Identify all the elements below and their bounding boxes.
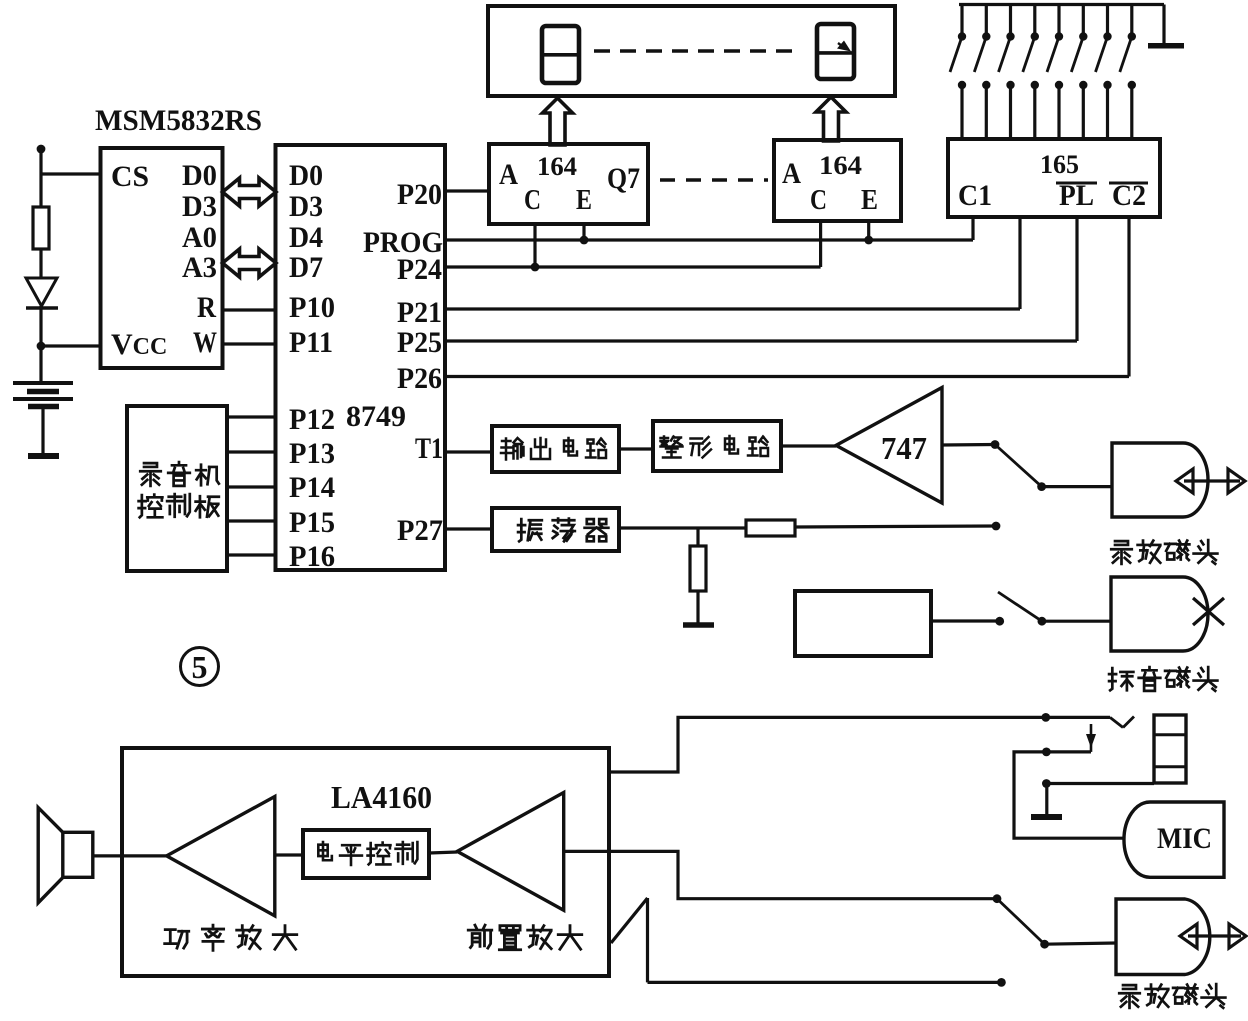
svg-text:P24: P24 [397, 253, 442, 286]
node - play contact [991, 440, 1000, 449]
digit cell left [542, 26, 579, 83]
svg-text:R: R [197, 291, 216, 324]
wire PROG bus [445, 238, 973, 241]
wire [931, 619, 1000, 622]
dashed cascade line [660, 178, 768, 181]
power rail node dot [37, 145, 46, 154]
wire P25 bus [445, 339, 1077, 342]
svg-text:P12: P12 [289, 403, 335, 436]
node C1 junction [531, 263, 540, 272]
node [995, 617, 1004, 626]
svg-text:W: W [193, 326, 217, 359]
ground (jack) [1031, 814, 1062, 820]
switch S1 [960, 5, 963, 35]
wire - switch top rail [959, 3, 1164, 6]
erase head [1111, 577, 1208, 651]
node E2 junction [864, 236, 873, 245]
switch S6 [1082, 5, 1085, 35]
wire - preamp output to record switch [564, 851, 997, 898]
wire P21 bus [445, 307, 1020, 310]
svg-text:C: C [810, 185, 827, 216]
svg-text:D4: D4 [289, 221, 323, 254]
wire [781, 444, 836, 447]
wire - rail to ground [1162, 5, 1165, 44]
switch - record/play head select [995, 445, 1042, 487]
wire P24 bus [445, 265, 821, 268]
wire power amp to level control [275, 853, 303, 856]
svg-text:A: A [499, 158, 518, 191]
block arrow 164#1 to display [543, 98, 573, 145]
block arrow 164#2 to display [816, 97, 846, 141]
diode D1 [26, 278, 57, 306]
switch - bottom head record/play [997, 899, 1045, 945]
IC U4 164 body [774, 140, 901, 221]
wire P26 bus [445, 375, 1129, 378]
head 2 gap arrows [1188, 934, 1241, 937]
jack J1 remote [1154, 715, 1186, 783]
node - record side contact [997, 978, 1006, 987]
svg-text:5: 5 [192, 649, 208, 685]
svg-text:D3: D3 [289, 190, 323, 223]
node Vcc junction [37, 342, 46, 351]
svg-text:D0: D0 [182, 159, 217, 192]
switch S8 [1130, 5, 1133, 35]
ground (oscillator) [683, 622, 714, 628]
svg-text:P14: P14 [289, 471, 335, 504]
battery B1 [13, 381, 73, 385]
svg-text:164: 164 [537, 152, 577, 181]
IC U2 8749 body [276, 145, 446, 570]
wire P16 [227, 553, 276, 556]
op-amp 747 [836, 388, 942, 504]
switch - erase head (open) [1038, 617, 1047, 626]
wire to head 2 [1045, 943, 1116, 944]
op-amp power amplifier [167, 797, 275, 916]
IC U1 MSM5832RS body [101, 148, 223, 368]
wire [41, 409, 44, 454]
wire speaker to power amp [94, 854, 167, 857]
switch - jack break contact [1110, 717, 1123, 727]
block - erase bias [795, 591, 931, 656]
wire P15 [227, 519, 276, 522]
svg-text:P27: P27 [397, 514, 443, 547]
svg-text:P25: P25 [397, 326, 442, 359]
wire A - preamp input select top [609, 717, 1110, 772]
svg-text:MSM5832RS: MSM5832RS [95, 104, 262, 137]
label - record/play head 2 [1119, 985, 1140, 1008]
svg-text:C1: C1 [958, 179, 992, 212]
wire E pin U3 [582, 224, 585, 240]
svg-text:CS: CS [111, 160, 149, 193]
svg-text:747: 747 [881, 430, 927, 466]
svg-text:T1: T1 [415, 432, 443, 465]
node on wire A [1041, 713, 1050, 722]
switch S4 [1033, 5, 1036, 35]
wire E pin U4 [867, 221, 870, 240]
wire R-P10 [223, 308, 276, 311]
svg-text:LA4160: LA4160 [331, 779, 432, 815]
block - wave shaping circuit [653, 421, 781, 471]
svg-text:164: 164 [819, 151, 862, 180]
switch S2 [985, 5, 988, 35]
svg-text:MIC: MIC [1157, 822, 1212, 855]
label - preamplifier [468, 925, 492, 948]
IC U6 LA4160 body [122, 748, 609, 976]
svg-text:C: C [524, 185, 541, 216]
battery end plate [28, 453, 59, 459]
svg-text:P21: P21 [397, 296, 442, 329]
wire to R2 [696, 528, 699, 546]
speaker LS [63, 832, 93, 877]
svg-text:8749: 8749 [346, 400, 406, 433]
figure number 5 circled [181, 648, 219, 686]
svg-text:P26: P26 [397, 362, 442, 395]
wire P12 [227, 415, 276, 418]
resistor R1 [33, 207, 49, 249]
wire W-P11 [223, 342, 276, 345]
wire P27 [445, 527, 492, 530]
svg-text:P16: P16 [289, 540, 335, 573]
svg-text:165: 165 [1040, 150, 1079, 179]
node - play side bottom [993, 894, 1002, 903]
wire to head [1042, 485, 1112, 488]
svg-text:P13: P13 [289, 437, 335, 470]
switch S7 [1106, 5, 1109, 35]
microphone MIC [1124, 802, 1224, 877]
wire C - jack sleeve to ground [1046, 782, 1154, 785]
dashed line display [594, 49, 800, 52]
bus arrow A0-A3/D4-D7 [223, 249, 277, 277]
block - LED display panel [488, 6, 895, 96]
wire - to CS [41, 172, 100, 175]
block - oscillator [492, 508, 619, 551]
wire [39, 249, 42, 278]
label - erase head [1109, 668, 1133, 690]
svg-text:A0: A0 [182, 221, 217, 254]
svg-text:D0: D0 [289, 159, 323, 192]
node on wire C [1042, 779, 1051, 788]
wire [619, 526, 746, 529]
digit cell right [817, 24, 854, 79]
svg-text:P15: P15 [289, 506, 335, 539]
erase head X mark [1193, 598, 1224, 625]
resistor R3 (horizontal) [746, 520, 795, 536]
record/play head 1 [1112, 443, 1208, 517]
IC U3 164 body [489, 144, 648, 224]
svg-text:A: A [782, 157, 801, 190]
svg-text:Q7: Q7 [607, 162, 640, 195]
node E1 junction [580, 236, 589, 245]
switch S3 [1009, 5, 1012, 35]
wire to erase head [1042, 620, 1111, 623]
svg-text:P20: P20 [397, 178, 442, 211]
record/play head 2 [1116, 899, 1210, 975]
svg-text:E: E [861, 185, 878, 216]
IC U5 165 body [948, 139, 1160, 217]
wire [696, 591, 699, 623]
wire level control to preamp [429, 852, 457, 853]
wire - to Vcc [41, 344, 100, 347]
svg-text:P10: P10 [289, 291, 335, 324]
wire - record feed zigzag [611, 898, 648, 943]
wire T1 [445, 450, 492, 453]
wire [795, 526, 996, 527]
label - power amplifier [165, 930, 189, 948]
svg-text:P11: P11 [289, 326, 333, 359]
label - record/play head [1111, 541, 1132, 564]
ground (switch rail) [1148, 43, 1184, 49]
wire [619, 447, 653, 450]
resistor R2 (vertical) [690, 546, 706, 591]
switch S5 [1057, 5, 1060, 35]
wire to ground [1045, 784, 1048, 816]
svg-text:E: E [576, 185, 592, 216]
wire - power rail vertical [39, 149, 42, 207]
node - record contact [992, 522, 1001, 531]
wire [39, 306, 42, 383]
bus arrow D0-D3 [223, 178, 277, 206]
svg-text:D3: D3 [182, 190, 217, 223]
block - output circuit [492, 426, 619, 472]
wire C pin U4 [819, 221, 822, 267]
wire B - mic line [1014, 752, 1124, 838]
wire P20 to 164 A [445, 189, 489, 192]
svg-text:A3: A3 [182, 251, 217, 284]
jack actuator arrow [1090, 724, 1093, 752]
wire P13 [227, 450, 276, 453]
wire 747 output [942, 443, 995, 447]
block - level control [303, 830, 429, 878]
wire C pin U3 [533, 224, 536, 267]
pointer arrow in right digit [838, 43, 846, 49]
head 1 gap arrows [1184, 479, 1240, 482]
wire P14 [227, 485, 276, 488]
block - tape recorder control board [127, 406, 227, 571]
op-amp preamplifier [457, 793, 564, 911]
svg-text:D7: D7 [289, 251, 323, 284]
node on wire B [1042, 748, 1051, 757]
